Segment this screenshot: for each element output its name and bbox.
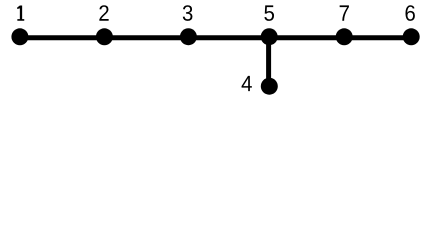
wire: vertical edge 5-4 [266, 38, 271, 86]
label 1 [17, 5, 24, 20]
label 3 [183, 5, 193, 21]
node 5 [261, 28, 278, 45]
node 2 [96, 28, 113, 45]
label 7 [340, 5, 349, 20]
node 6 [403, 28, 420, 45]
label 2 [99, 5, 108, 21]
label 4 [242, 76, 252, 91]
label 5 [264, 5, 274, 20]
wire: horizontal path edge 1-2-3-5-7-6 [20, 35, 411, 40]
node 7 [336, 28, 353, 45]
node 3 [180, 28, 197, 45]
node 4 [261, 78, 278, 95]
label 6 [405, 5, 414, 21]
node 1 [11, 28, 28, 45]
